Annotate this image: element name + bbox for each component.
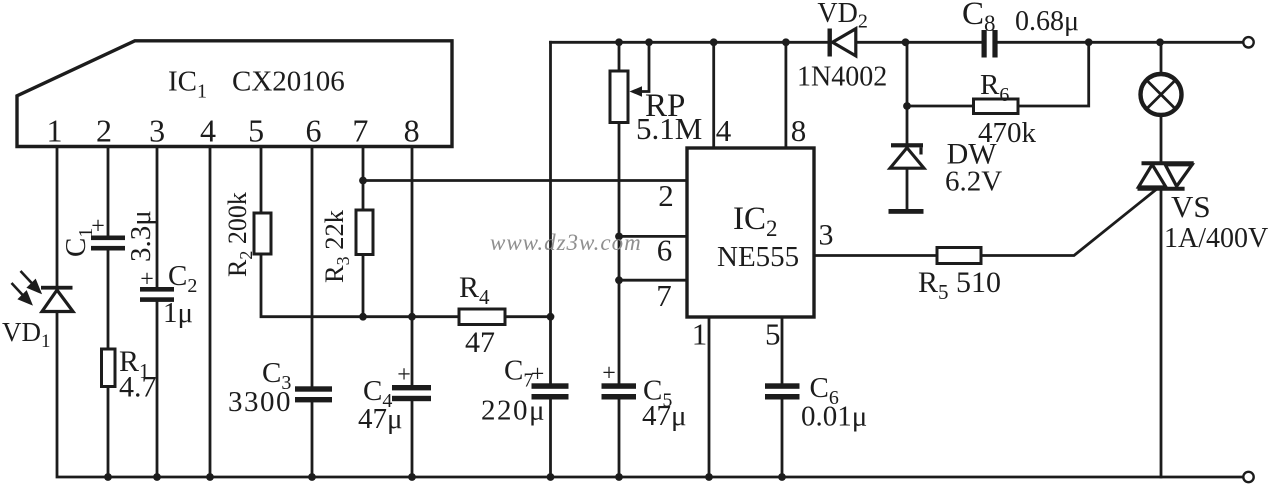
svg-text:47: 47: [465, 326, 495, 359]
svg-text:VS: VS: [1171, 189, 1211, 224]
svg-text:0.68μ: 0.68μ: [1015, 6, 1079, 37]
svg-text:1: 1: [47, 113, 63, 149]
svg-text:0.01μ: 0.01μ: [801, 401, 867, 433]
svg-text:6: 6: [657, 233, 673, 268]
svg-text:1μ: 1μ: [163, 297, 193, 329]
svg-text:7: 7: [656, 278, 672, 313]
svg-text:3: 3: [149, 113, 165, 149]
svg-text:+: +: [140, 267, 154, 293]
svg-text:1A/400V: 1A/400V: [1164, 223, 1268, 254]
svg-text:4: 4: [716, 113, 732, 148]
svg-text:2: 2: [96, 113, 112, 149]
svg-text:47μ: 47μ: [642, 400, 687, 432]
svg-text:47μ: 47μ: [358, 403, 403, 435]
svg-text:220μ: 220μ: [481, 395, 546, 427]
svg-text:8: 8: [791, 113, 807, 148]
svg-text:3: 3: [819, 219, 834, 252]
svg-text:+: +: [531, 362, 545, 388]
svg-text:1: 1: [692, 317, 708, 352]
svg-text:4: 4: [200, 113, 216, 149]
svg-text:1N4002: 1N4002: [797, 62, 887, 93]
svg-text:+: +: [397, 362, 411, 388]
svg-text:NE555: NE555: [717, 241, 799, 273]
svg-text:3300: 3300: [228, 386, 292, 418]
svg-text:7: 7: [352, 113, 368, 149]
svg-text:6.2V: 6.2V: [945, 166, 1002, 198]
svg-text:R3 22k: R3 22k: [319, 209, 353, 283]
svg-text:CX20106: CX20106: [232, 66, 345, 98]
svg-text:www.dz3w.com: www.dz3w.com: [490, 230, 642, 255]
svg-text:5: 5: [248, 113, 264, 149]
svg-text:5: 5: [765, 317, 781, 352]
svg-text:R5 510: R5 510: [918, 266, 1001, 304]
svg-text:6: 6: [306, 113, 322, 149]
svg-text:+: +: [602, 361, 616, 387]
svg-text:R2 200k: R2 200k: [223, 192, 256, 277]
svg-text:+: +: [91, 214, 105, 240]
svg-text:3.3μ: 3.3μ: [125, 210, 157, 262]
svg-text:5.1M: 5.1M: [636, 111, 702, 146]
svg-text:4.7: 4.7: [119, 371, 157, 404]
svg-text:8: 8: [404, 113, 420, 149]
svg-text:2: 2: [658, 178, 674, 213]
